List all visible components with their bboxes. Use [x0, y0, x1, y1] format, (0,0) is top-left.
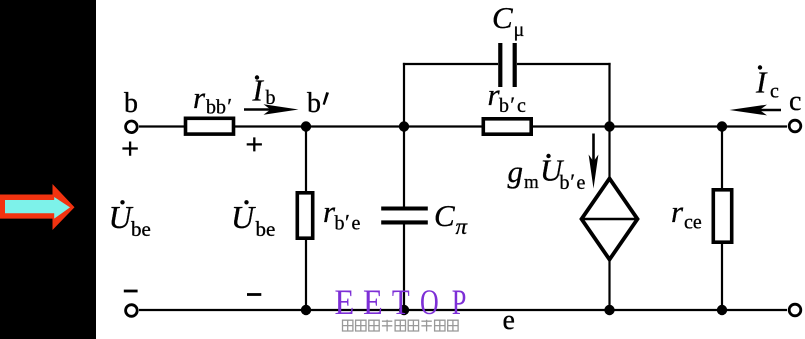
svg-text:U: U	[109, 199, 134, 235]
wire: top branch left segment to C_mu	[403, 63, 498, 65]
arrow I_b (points right)	[244, 108, 272, 110]
red arrow outline (sidebar pointer)	[0, 184, 75, 230]
svg-text:b: b	[560, 172, 570, 194]
resistor r_b'e box	[297, 193, 312, 238]
dependent current source diamond g_m U_b'e	[582, 179, 638, 260]
svg-text:′: ′	[570, 169, 575, 194]
wire: bottom rail e (y=310)	[139, 309, 787, 311]
wire: vertical at x=609.5 lower (diamond to rail)	[608, 258, 610, 310]
junction dot (404,126.5)	[399, 121, 409, 131]
current source direction arrow (downward)	[592, 134, 595, 164]
svg-text:e: e	[352, 213, 361, 235]
wire: vertical at x=609.5 upper (top rail to main line)	[608, 63, 610, 180]
junction dot (306,310)	[301, 305, 311, 315]
inner U_be with dot	[244, 200, 248, 204]
svg-text:be: be	[256, 217, 276, 241]
svg-text:μ: μ	[514, 19, 525, 41]
junction dot (722,126.5)	[717, 121, 727, 131]
resistor r_ce box	[713, 190, 731, 242]
svg-text:′: ′	[345, 209, 350, 234]
label I_b with dot	[255, 75, 259, 79]
arrow I_c (points left)	[755, 109, 781, 111]
inner minus sign	[247, 293, 261, 296]
junction dot (609.5,310)	[604, 305, 614, 315]
diamond middle line	[582, 218, 638, 221]
svg-text:bb: bb	[206, 97, 226, 119]
svg-text:r: r	[193, 80, 206, 115]
svg-text:E: E	[335, 282, 355, 322]
svg-text:π: π	[456, 214, 469, 239]
svg-text:b: b	[307, 88, 321, 119]
label U_be left with dot	[120, 200, 124, 204]
left black sidebar	[0, 0, 96, 339]
capacitor C_mu plates	[498, 43, 502, 87]
svg-text:be: be	[131, 217, 151, 241]
svg-text:c: c	[789, 86, 801, 117]
svg-text:T: T	[392, 283, 410, 323]
wire: vertical at x=306 (b' through r_b'e to rail)	[305, 127, 307, 311]
svg-text:′: ′	[227, 93, 232, 118]
svg-text:C: C	[492, 0, 513, 35]
junction dot b' (306,126.5)	[301, 121, 311, 131]
resistor R r_bb' box	[186, 118, 234, 134]
svg-text:g: g	[508, 154, 524, 189]
svg-text:ce: ce	[684, 212, 702, 234]
svg-text:′: ′	[510, 92, 515, 117]
svg-text:c: c	[517, 95, 526, 117]
wire: main horizontal line b to c (y=126.5)	[139, 125, 787, 127]
wire: top branch right segment from C_mu	[517, 63, 611, 65]
svg-text:b: b	[335, 213, 345, 235]
resistor r_b'c box	[483, 119, 531, 134]
watermark EETOP	[335, 282, 467, 323]
junction dot (404,310)	[399, 305, 409, 315]
svg-text:U: U	[231, 199, 256, 235]
inner plus sign	[247, 137, 262, 151]
svg-text:P: P	[452, 282, 467, 322]
capacitor C_pi plates	[381, 207, 428, 211]
svg-text:b: b	[124, 88, 138, 119]
svg-text:C: C	[434, 198, 455, 233]
svg-text:I: I	[755, 65, 768, 100]
svg-text:b: b	[499, 95, 509, 117]
terminal bottom-left open circle	[126, 305, 138, 317]
svg-text:e: e	[577, 172, 586, 194]
svg-text:m: m	[524, 172, 539, 193]
label I_c with dot	[758, 65, 762, 69]
minus sign above bottom-left terminal	[124, 290, 138, 293]
svg-text:e: e	[503, 305, 515, 336]
cyan arrow fill (sidebar pointer)	[5, 197, 70, 219]
svg-text:b: b	[266, 87, 276, 109]
svg-text:c: c	[770, 81, 779, 103]
watermark chinese line (glyph blocks)	[343, 320, 459, 332]
junction dot (722,310)	[717, 305, 727, 315]
terminal bottom-right (e side) open circle	[789, 304, 801, 316]
svg-text:r: r	[671, 194, 684, 229]
svg-text:I: I	[252, 73, 265, 108]
terminal c open circle	[789, 120, 801, 132]
terminal b open circle	[126, 121, 138, 133]
wire: vertical at x=722 (main line through r_ce to rail)	[721, 127, 723, 311]
wire: vertical at x=404 top (to C_pi top plate)	[403, 63, 405, 207]
svg-text:E: E	[363, 282, 383, 322]
junction dot (609.5,126.5)	[604, 121, 614, 131]
wire: vertical at x=404 bottom (C_pi to rail)	[403, 224, 405, 310]
svg-text:O: O	[420, 282, 439, 322]
plus sign under b	[122, 142, 137, 156]
